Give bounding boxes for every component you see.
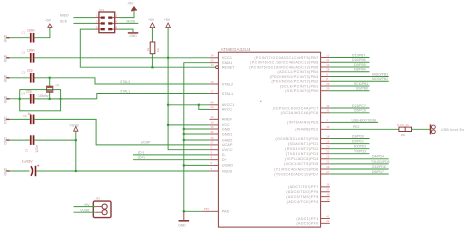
wire AVCC1 row	[168, 104, 209, 106]
wire D+	[133, 155, 209, 159]
crystal Q1 16MHz	[38, 78, 60, 99]
svg-text:17: 17	[211, 89, 215, 93]
node junctions row4	[18, 98, 61, 101]
svg-text:(PCINT6/OC.1B/OC4B/ADC13)PB6: (PCINT6/OC.1B/OC4B/ADC13)PB6	[250, 61, 318, 65]
wire PC7 net D13/PC7	[330, 104, 370, 108]
wire	[10, 77, 30, 79]
svg-text:GND2: GND2	[222, 138, 233, 142]
svg-text:100n: 100n	[27, 28, 35, 32]
wire PC6 net D5/PC6	[330, 109, 370, 113]
svg-text:GND1: GND1	[222, 61, 233, 65]
svg-text:29: 29	[326, 82, 330, 86]
svg-text:43: 43	[211, 136, 215, 140]
ground (header)	[128, 33, 139, 38]
svg-text:P$1: P$1	[204, 207, 209, 211]
pin names right	[249, 56, 318, 226]
wire PB2 net MOSI/PB2	[330, 77, 389, 81]
ground label GND row2	[3, 54, 9, 62]
svg-text:GND: GND	[129, 34, 137, 38]
svg-text:C2: C2	[22, 51, 26, 55]
svg-text:TXLED/PD5: TXLED/PD5	[371, 160, 390, 164]
wire loop around C4	[20, 90, 61, 111]
svg-text:34: 34	[211, 54, 215, 58]
capacitor C7 1u/16V polarized	[22, 159, 39, 176]
svg-text:MISO: MISO	[60, 14, 69, 18]
wire PD0 net D3/PD0	[330, 134, 370, 138]
node	[167, 124, 170, 127]
wire VCC row	[168, 124, 209, 126]
svg-text:(PDO/MISO/PCINT3)PB3: (PDO/MISO/PCINT3)PB3	[270, 75, 319, 79]
svg-text:XTAL2: XTAL2	[120, 80, 130, 84]
wire PB3 net MISO/PB3	[330, 72, 389, 76]
svg-text:AVCC: AVCC	[222, 108, 233, 112]
wire GND rows to IC	[184, 129, 210, 211]
svg-text:MOSI/PB2: MOSI/PB2	[372, 77, 388, 81]
pin numbers left	[211, 54, 215, 171]
wire UCAP routing	[34, 119, 209, 144]
svg-text:XTAL2: XTAL2	[222, 82, 233, 86]
svg-text:C1: C1	[22, 30, 26, 34]
ground label GND row6	[3, 167, 9, 175]
svg-text:(OC0B/SCL/INT0)PD0: (OC0B/SCL/INT0)PD0	[275, 137, 318, 141]
power +5V (header)	[127, 2, 137, 12]
power VUSB arrow	[70, 123, 80, 131]
svg-text:R2: R2	[146, 47, 150, 51]
svg-text:(ADC4/TCK)PF4: (ADC4/TCK)PF4	[287, 200, 319, 204]
svg-text:SV1: SV1	[99, 8, 105, 12]
wire PB0 net SS/PB0	[330, 87, 370, 91]
svg-text:D5/PC6: D5/PC6	[354, 109, 366, 113]
svg-text:(PCINT5/OC1A/#OC4B/ADC12)PB5: (PCINT5/OC1A/#OC4B/ADC12)PB5	[249, 65, 318, 69]
svg-text:12: 12	[326, 53, 330, 57]
svg-text:(PCINT7/OC0A/OC1C/#RTS)PB7: (PCINT7/OC0A/OC1C/#RTS)PB7	[254, 56, 318, 60]
svg-text:(ICP3/CLK0/OC4A)PC7: (ICP3/CLK0/OC4A)PC7	[273, 106, 319, 110]
ground label GND row1	[3, 34, 9, 42]
svg-text:22: 22	[326, 160, 330, 164]
svg-text:22p: 22p	[26, 90, 32, 94]
node crystal-top junction	[48, 77, 51, 80]
svg-text:10k: 10k	[401, 133, 406, 137]
pin RESET bubble	[216, 66, 219, 69]
svg-text:RX/PD2: RX/PD2	[354, 145, 366, 149]
svg-text:40: 40	[326, 219, 330, 223]
svg-text:JP1: JP1	[96, 197, 101, 201]
node GND junctions	[183, 128, 186, 213]
power +5V (rail)	[164, 18, 171, 27]
svg-text:16MHz: 16MHz	[38, 94, 49, 98]
svg-text:24: 24	[211, 105, 215, 109]
wire XTAL1	[97, 89, 210, 99]
svg-text:23: 23	[211, 59, 215, 63]
pin numbers right	[326, 53, 330, 223]
wire resistor to jumper	[412, 128, 431, 130]
svg-text:27: 27	[326, 170, 330, 174]
node	[151, 66, 154, 69]
svg-text:+5V: +5V	[127, 2, 134, 6]
svg-text:(ADC0)PF0: (ADC0)PF0	[296, 222, 318, 226]
wire header +5V	[118, 10, 134, 18]
wire GND vertical rail	[184, 63, 210, 212]
svg-text:VUSB: VUSB	[80, 209, 90, 213]
svg-text:(ICP1/ADC8)PD4: (ICP1/ADC8)PD4	[285, 157, 319, 161]
svg-text:1u/16V: 1u/16V	[22, 159, 33, 163]
wire D-	[133, 151, 209, 155]
resistor R3 10k	[397, 123, 412, 137]
svg-text:33: 33	[326, 125, 330, 129]
svg-text:UVCC: UVCC	[222, 148, 233, 152]
pin header SV1 (ISP)	[95, 8, 118, 33]
svg-text:18: 18	[326, 134, 330, 138]
svg-text:26: 26	[326, 165, 330, 169]
svg-text:10k: 10k	[156, 47, 160, 52]
wire PD1 net D2/PD1	[330, 140, 370, 144]
svg-text:15: 15	[211, 125, 215, 129]
pin names left	[222, 56, 235, 214]
svg-text:30: 30	[326, 87, 330, 91]
svg-text:AREF: AREF	[222, 118, 233, 122]
svg-text:(D+): (D+)	[138, 155, 145, 159]
svg-text:TX/PD3: TX/PD3	[354, 150, 366, 154]
svg-text:39: 39	[326, 197, 330, 201]
svg-text:GND1: GND1	[222, 132, 233, 136]
svg-text:R-US_10: R-US_10	[397, 123, 409, 127]
wire RESET from header to IC	[80, 29, 216, 67]
svg-text:(#HWB)PE2: (#HWB)PE2	[295, 128, 318, 132]
node	[167, 57, 170, 60]
wire PD4 net D4/PD4	[330, 155, 389, 159]
svg-text:SCK/PB1: SCK/PB1	[354, 82, 368, 86]
svg-text:+5V: +5V	[45, 18, 52, 22]
svg-text:31: 31	[326, 109, 330, 113]
wire SCK	[60, 19, 95, 23]
svg-text:D10/PB6: D10/PB6	[352, 58, 366, 62]
svg-text:D2/PD1: D2/PD1	[352, 140, 364, 144]
ground label GND row3	[3, 74, 9, 82]
wire PD6 net D12/PD6	[330, 165, 389, 169]
wire JP1 +5V	[74, 203, 97, 207]
svg-text:(SDA/INT1)PD1: (SDA/INT1)PD1	[288, 142, 319, 146]
svg-text:SCK: SCK	[60, 19, 68, 23]
svg-text:10: 10	[326, 63, 330, 67]
IC U1 ATMEGA32U4 box	[218, 47, 320, 227]
wire row4	[34, 98, 96, 100]
svg-text:28: 28	[326, 68, 330, 72]
svg-text:Q1: Q1	[56, 83, 60, 87]
svg-text:44: 44	[211, 101, 215, 105]
svg-text:(ADC1)PF1: (ADC1)PF1	[296, 217, 318, 221]
svg-text:UGND: UGND	[222, 164, 233, 168]
wire PB1 net SCK/PB1	[330, 82, 370, 86]
svg-text:XTAL1: XTAL1	[120, 89, 130, 93]
wire	[10, 37, 30, 39]
ground label GND row C6	[3, 116, 9, 124]
wire AVCC branch	[199, 105, 210, 110]
wire XTAL2	[34, 78, 209, 84]
svg-text:100n: 100n	[35, 145, 39, 153]
svg-text:13: 13	[211, 63, 215, 67]
svg-text:VBUS: VBUS	[222, 169, 233, 173]
svg-text:22p: 22p	[27, 68, 33, 72]
svg-text:GND: GND	[222, 127, 231, 131]
svg-text:USB boot En: USB boot En	[441, 128, 464, 132]
svg-text:(T0/OC4D/ADC10)PD7: (T0/OC4D/ADC10)PD7	[274, 172, 318, 176]
wire	[10, 57, 30, 59]
svg-text:PAD: PAD	[222, 210, 230, 214]
wire R2 to RESET row	[151, 54, 153, 67]
svg-text:(XCK1/#CTS)PD5: (XCK1/#CTS)PD5	[284, 162, 319, 166]
svg-text:(D-): (D-)	[138, 151, 144, 155]
wire VBUS row to IC	[36, 170, 209, 172]
wire MISO	[60, 14, 95, 18]
svg-text:(PDI/MOSI/PCINT2)PB2: (PDI/MOSI/PCINT2)PB2	[271, 80, 318, 84]
power +5V (top-left)	[45, 18, 52, 27]
wire PB4 net D8/PB4	[330, 68, 370, 72]
solder jumper SJ1 USB boot En	[431, 124, 465, 134]
svg-text:GND: GND	[178, 224, 186, 228]
wire PB6 net D10/PB6	[330, 58, 370, 62]
svg-text:(ADC6/TDO)PF6: (ADC6/TDO)PF6	[286, 190, 318, 194]
svg-text:MOSI: MOSI	[127, 19, 136, 23]
wire	[10, 170, 29, 172]
wire	[34, 27, 50, 37]
svg-text:35: 35	[211, 130, 215, 134]
svg-text:(OC3A/#OC4A)PC6: (OC3A/#OC4A)PC6	[281, 111, 319, 115]
svg-text:(INT6/AIN0)PE6: (INT6/AIN0)PE6	[287, 121, 319, 125]
svg-text:D3/PD0: D3/PD0	[352, 134, 364, 138]
svg-text:41: 41	[326, 214, 330, 218]
svg-text:D6/PD7: D6/PD7	[372, 170, 384, 174]
svg-text:(RXD1/INT2)PD2: (RXD1/INT2)PD2	[285, 147, 318, 151]
svg-text:(TXD1/INT3)PD3: (TXD1/INT3)PD3	[286, 152, 319, 156]
wire PB5 net D9/PB5	[330, 63, 370, 67]
svg-text:ATMEGA32U4: ATMEGA32U4	[221, 47, 251, 52]
svg-text:20: 20	[326, 145, 330, 149]
svg-text:16: 16	[211, 80, 215, 84]
power +5V (R2 pullup)	[148, 18, 155, 27]
svg-text:D4/PD4: D4/PD4	[372, 155, 384, 159]
IC right pin stubs	[321, 58, 330, 224]
svg-text:UCAP: UCAP	[222, 143, 233, 147]
wire +5V rail down to UVCC	[168, 28, 209, 150]
wire PD7 net D6/PD7	[330, 170, 389, 174]
node	[167, 104, 170, 107]
wire	[10, 139, 30, 141]
svg-text:+5V: +5V	[83, 203, 90, 207]
svg-text:D+: D+	[222, 158, 228, 162]
svg-text:D9/PB5: D9/PB5	[354, 63, 366, 67]
svg-text:25: 25	[326, 155, 330, 159]
svg-text:36: 36	[326, 183, 330, 187]
capacitor C6 1u	[23, 112, 34, 124]
svg-text:USB-BOOT(EN): USB-BOOT(EN)	[352, 118, 377, 122]
node VUSB junction	[75, 139, 78, 142]
svg-text:MISO/PB3: MISO/PB3	[372, 72, 388, 76]
capacitor C5 100n	[25, 135, 40, 153]
svg-text:11: 11	[326, 58, 329, 62]
wire VCC1 row to IC	[34, 57, 209, 59]
capacitor C3 22p	[22, 68, 35, 82]
wire PE6 net USB-BOOT(EN)	[330, 118, 378, 122]
svg-text:D8/PB4: D8/PB4	[354, 68, 366, 72]
svg-text:C3: C3	[22, 71, 26, 75]
wire	[10, 118, 30, 120]
svg-text:+5V: +5V	[164, 18, 171, 22]
resistor R2 10k	[146, 42, 160, 54]
wire PD5 net TXLED/PD5	[330, 160, 390, 164]
ground label GND row5	[3, 137, 9, 145]
capacitor C2 100n	[22, 48, 35, 62]
svg-text:C5: C5	[25, 148, 29, 152]
svg-text:27: 27	[211, 141, 215, 145]
wire PD2 net RX/PD2	[330, 145, 370, 149]
svg-text:(T1/#OC4D/ADC9)PD6: (T1/#OC4D/ADC9)PD6	[274, 167, 318, 171]
svg-text:(ADC7/TDI)PF7: (ADC7/TDI)PF7	[288, 185, 319, 189]
node	[75, 170, 78, 173]
svg-text:C4: C4	[22, 92, 26, 96]
svg-text:UCAP: UCAP	[141, 141, 151, 145]
svg-text:(ADC5/TMS)PF5: (ADC5/TMS)PF5	[286, 195, 318, 199]
svg-text:32: 32	[326, 104, 330, 108]
svg-text:+5V: +5V	[148, 18, 155, 22]
svg-text:D13/PC7: D13/PC7	[352, 104, 366, 108]
IC left pin stubs	[202, 58, 219, 212]
svg-text:PE2: PE2	[353, 125, 360, 129]
svg-text:(ADC11/PCINT4)PB4: (ADC11/PCINT4)PB4	[278, 70, 319, 74]
wire	[10, 98, 30, 100]
wire JP1 VUSB	[74, 209, 97, 213]
wire	[151, 28, 153, 42]
wire MOSI stub	[118, 19, 138, 23]
svg-text:XTAL1: XTAL1	[222, 92, 233, 96]
svg-text:42: 42	[211, 115, 215, 119]
wire header GND	[118, 29, 133, 32]
connector JP1	[93, 197, 111, 218]
wire PD3 net TX/PD3	[330, 150, 370, 154]
wire PE2 to resistor	[330, 125, 399, 129]
svg-text:37: 37	[326, 188, 330, 192]
svg-text:D11/PB7: D11/PB7	[352, 53, 365, 57]
svg-text:VCC1: VCC1	[222, 56, 232, 60]
wire PB7 net D11/PB7	[330, 53, 370, 57]
svg-text:RESET: RESET	[222, 66, 235, 70]
svg-text:38: 38	[326, 193, 330, 197]
ground (IC)	[178, 211, 189, 227]
capacitor C4 22p	[22, 90, 35, 104]
svg-text:AVCC1: AVCC1	[222, 103, 234, 107]
svg-text:(SCLK/PCINT1)PB1: (SCLK/PCINT1)PB1	[280, 84, 319, 88]
wire VUSB stem	[75, 131, 77, 171]
svg-text:19: 19	[326, 139, 330, 143]
svg-text:(SS/PCINT0)PB0: (SS/PCINT0)PB0	[285, 89, 318, 93]
svg-text:VUSB: VUSB	[70, 123, 80, 127]
ground label GND row4	[3, 95, 9, 103]
svg-text:100n: 100n	[27, 48, 35, 52]
svg-text:SS/PB0: SS/PB0	[356, 87, 368, 91]
capacitor C1 100n	[22, 28, 35, 42]
svg-text:21: 21	[326, 150, 330, 154]
wire	[34, 139, 75, 141]
node	[198, 104, 201, 107]
svg-text:D12/PD6: D12/PD6	[372, 165, 386, 169]
